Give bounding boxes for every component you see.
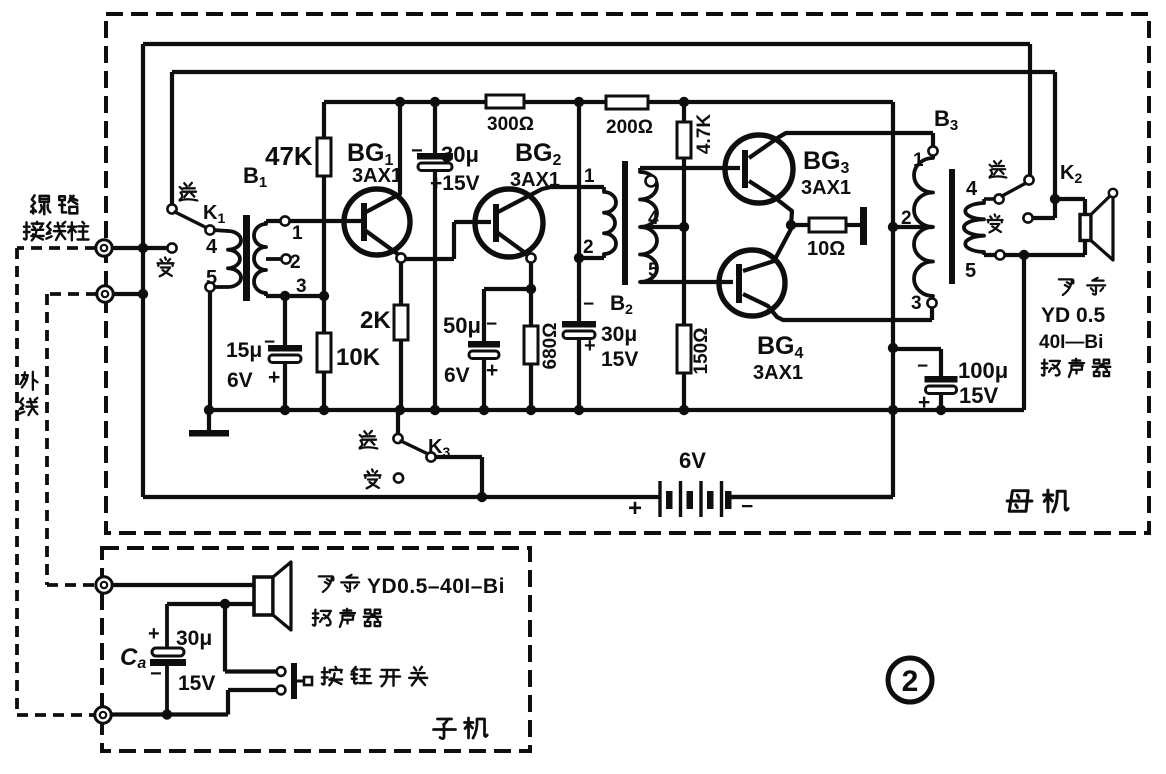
svg-text:2: 2 (583, 237, 594, 258)
svg-text:3AX1: 3AX1 (801, 177, 851, 199)
svg-text:6V: 6V (227, 369, 253, 392)
svg-text:150Ω: 150Ω (691, 328, 712, 375)
svg-text:−: − (917, 356, 928, 377)
svg-text:3: 3 (911, 293, 922, 314)
svg-text:−: − (741, 495, 753, 518)
svg-text:100μ: 100μ (958, 358, 1008, 383)
svg-text:30μ: 30μ (601, 323, 637, 346)
svg-text:15V: 15V (959, 383, 998, 408)
svg-text:47K: 47K (265, 141, 313, 171)
svg-text:6V: 6V (444, 364, 470, 387)
svg-text:1: 1 (913, 150, 924, 171)
svg-text:300Ω: 300Ω (487, 114, 534, 135)
svg-text:2K: 2K (360, 307, 391, 334)
svg-text:4.7K: 4.7K (694, 114, 715, 154)
svg-text:15μ: 15μ (226, 339, 262, 362)
svg-text:2: 2 (902, 665, 919, 698)
svg-text:40I—Bi: 40I—Bi (1039, 332, 1103, 353)
svg-text:3AX1: 3AX1 (753, 362, 803, 384)
svg-text:10Ω: 10Ω (807, 238, 845, 260)
svg-text:2: 2 (901, 208, 912, 229)
svg-text:−: − (486, 314, 497, 335)
svg-text:YD 0.5: YD 0.5 (1041, 304, 1106, 327)
svg-text:5: 5 (206, 267, 217, 289)
svg-text:4: 4 (966, 178, 978, 200)
svg-text:+: + (584, 335, 596, 357)
svg-text:200Ω: 200Ω (606, 117, 653, 138)
svg-text:3: 3 (296, 276, 307, 297)
svg-text:50μ: 50μ (443, 313, 481, 338)
svg-text:6V: 6V (679, 448, 706, 473)
svg-text:+: + (628, 495, 642, 522)
svg-text:−: − (150, 663, 162, 685)
svg-text:+15V: +15V (430, 172, 480, 195)
svg-text:15V: 15V (601, 348, 638, 371)
svg-text:2: 2 (290, 252, 301, 273)
svg-text:4: 4 (648, 208, 659, 229)
svg-text:+: + (486, 359, 498, 382)
svg-text:1: 1 (292, 223, 303, 244)
svg-text:3AX1: 3AX1 (510, 169, 560, 191)
svg-text:10K: 10K (336, 344, 381, 371)
svg-text:5: 5 (648, 260, 659, 281)
svg-text:+: + (918, 391, 930, 414)
svg-text:5: 5 (965, 260, 976, 282)
svg-text:3AX1: 3AX1 (352, 165, 402, 187)
svg-text:−: − (264, 332, 275, 353)
svg-text:1: 1 (584, 166, 595, 187)
svg-text:+: + (148, 623, 160, 645)
svg-text:680Ω: 680Ω (540, 323, 561, 370)
svg-text:4: 4 (206, 236, 218, 258)
svg-text:30μ: 30μ (441, 142, 479, 167)
svg-text:30μ: 30μ (176, 627, 212, 650)
svg-text:+: + (268, 366, 280, 389)
svg-text:−: − (411, 140, 423, 162)
svg-text:15V: 15V (178, 672, 215, 695)
svg-text:YD0.5–40I–Bi: YD0.5–40I–Bi (367, 575, 505, 598)
svg-text:−: − (583, 294, 594, 315)
